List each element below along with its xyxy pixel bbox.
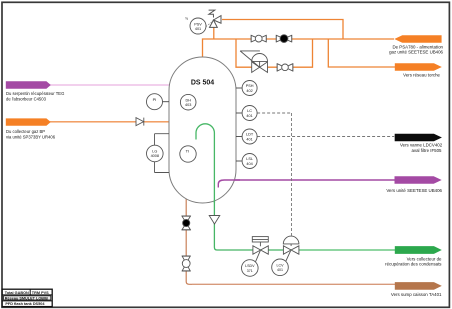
signal: dashed LDT401 to black arrow [257,136,394,138]
redraw green dip tube over vessel [196,124,214,203]
globe valve on drain [182,256,191,271]
svg-text:LG: LG [152,149,157,153]
svg-text:401: 401 [195,27,201,31]
check valve on green vertical [209,216,220,225]
svg-text:4008: 4008 [151,154,159,158]
arrow purple inlet [6,81,51,88]
wire: orange gas BP inlet line [50,121,169,123]
svg-text:aval filtre IF505: aval filtre IF505 [411,148,442,153]
instrument PSV401 [185,17,213,34]
signal: dashed LC401 to LCV401 [257,113,291,236]
svg-text:Du serpentin récupérateur TEG: Du serpentin récupérateur TEG [6,91,64,96]
svg-text:401: 401 [246,137,252,141]
svg-text:LSDV: LSDV [245,264,255,268]
wire: green dip tube and condensate line [196,124,300,250]
svg-text:PFD flash tank DS504: PFD flash tank DS504 [5,302,45,306]
instrument LSDV371 bubble [242,260,259,277]
svg-text:Total GABON: Total GABON [5,291,29,295]
level gauge LG4008 [147,134,170,173]
svg-text:TRM PVS: TRM PVS [32,291,49,295]
arrow Vers vanne LDCV402 (black) [395,134,442,142]
svg-text:TI: TI [186,149,190,154]
instrument DH403 (in vessel) [180,94,196,110]
wire: PSV outlet line to header [222,20,343,40]
svg-text:404: 404 [246,162,252,166]
svg-text:¾: ¾ [185,17,188,21]
check valve on orange inlet [136,118,144,126]
svg-text:Vers unité SEETESE UB406: Vers unité SEETESE UB406 [386,188,442,193]
arrow Vers collecteur (green) [395,246,442,254]
svg-text:De PSA780 - alimentation: De PSA780 - alimentation [392,44,443,49]
svg-text:Vers collecteur de: Vers collecteur de [407,256,442,261]
svg-text:PSH: PSH [246,84,254,88]
wire: brown drain line to sump [186,196,192,284]
svg-text:401: 401 [246,114,252,118]
svg-text:récupération des condensats: récupération des condensats [385,262,442,267]
svg-text:LDT: LDT [246,133,254,137]
arrow orange inlet [6,118,51,125]
PSV valve (angle relief) [209,10,221,27]
redraw purple outlet elbow over vessel [218,180,240,188]
control valve LCV401 [283,236,299,261]
svg-text:Vers sump caisson TA401: Vers sump caisson TA401 [391,292,442,297]
instrument LSL404 [236,154,257,169]
valve V1 open gate row1 [251,35,266,42]
svg-text:Réseau SMULET LOBIB: Réseau SMULET LOBIB [5,297,48,301]
wire: purple TEG inlet line [50,84,169,86]
title block [2,289,52,306]
vessel DS504 [169,57,236,203]
wire: flare branch to torche arrow [328,39,395,67]
wire: orange row1 gas header y=39 with vessel top nozzle [203,39,395,57]
instrument PI [147,94,170,110]
closed ball valve on drain [182,216,191,230]
instrument PSH402 [236,81,257,96]
wire: bypass loop row2 [236,39,313,67]
svg-text:403: 403 [185,103,191,107]
svg-text:gaz unité SEETESE UB406: gaz unité SEETESE UB406 [389,50,443,55]
valve V2 closed (black ball) row1 [276,35,291,43]
svg-text:PSV: PSV [194,22,202,26]
svg-text:PI: PI [153,97,157,102]
arrow De PSA780 (incoming, points left) [394,35,441,43]
svg-text:DH: DH [185,98,191,102]
control valve PCV row2 with dome actuator [240,51,267,73]
arrow Vers reseau torche [395,63,442,70]
instrument LCV401 bubble [272,259,289,276]
valve row2 open gate [277,64,293,72]
svg-text:de l'absorbeur C4503: de l'absorbeur C4503 [6,97,47,102]
svg-text:LSL: LSL [246,157,253,161]
shutdown valve LSDV371 [252,237,268,262]
instrument LC401 [236,106,257,121]
instrument TI (in vessel) [180,146,196,162]
svg-text:401: 401 [277,268,283,272]
wire: PSV inlet riser [213,26,215,40]
wire: purple outlet line [218,180,394,188]
svg-text:Vers réseau torche: Vers réseau torche [403,72,440,77]
instrument LDT401 [236,129,257,144]
svg-text:via unité SP373BY UR406: via unité SP373BY UR406 [6,135,56,140]
arrow Vers unite (purple) [395,176,442,184]
svg-text:DS 504: DS 504 [191,80,214,87]
svg-text:402: 402 [246,89,252,93]
svg-text:LCV: LCV [277,264,285,268]
arrow Vers sump caisson (brown) [395,282,442,290]
svg-text:Du collecteur gaz BP: Du collecteur gaz BP [6,129,45,134]
svg-text:371: 371 [247,269,253,273]
svg-text:LC: LC [247,109,252,113]
